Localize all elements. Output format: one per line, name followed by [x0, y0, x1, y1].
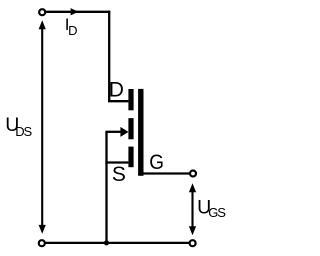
terminal top-left — [39, 9, 45, 15]
transistor Q1 gate bar — [138, 89, 143, 176]
svg-text:S: S — [112, 163, 126, 186]
wire gate to right terminal — [141, 172, 189, 174]
wire body/source vertical down to bottom rail — [105, 131, 107, 243]
voltage arrow U_GS (double-headed) — [189, 183, 196, 235]
svg-text:D: D — [68, 23, 77, 38]
terminal gate (right) — [190, 171, 196, 177]
junction source/bottom rail — [104, 240, 109, 245]
transistor Q1 n-channel MOSFET : channel segment (drain) — [128, 89, 133, 110]
wire drain stub to channel — [108, 100, 128, 102]
terminal bottom-right — [190, 240, 196, 246]
wire vertical down to drain stub — [108, 11, 110, 102]
wire body arrow shaft — [107, 131, 123, 133]
wire bottom rail — [45, 242, 189, 244]
wire source stub to channel — [105, 161, 128, 163]
svg-text:D: D — [109, 79, 124, 102]
svg-text:GS: GS — [208, 205, 226, 220]
wire top from drain terminal to corner — [46, 11, 111, 13]
terminal bottom-left — [39, 240, 45, 246]
voltage arrow U_DS (double-headed) — [39, 20, 46, 234]
svg-text:G: G — [149, 151, 164, 174]
transistor Q1 channel segment (source) — [128, 147, 133, 168]
current arrow I_D head — [71, 8, 79, 15]
svg-text:DS: DS — [15, 124, 32, 139]
transistor Q1 body arrow head (pointing to channel) — [120, 127, 128, 137]
transistor Q1 channel segment (body) — [128, 118, 133, 139]
